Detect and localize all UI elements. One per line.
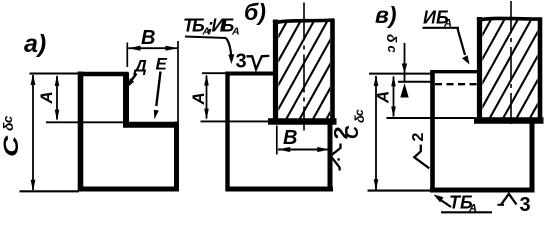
svg-text:δ: δ [384,34,400,43]
centerline of block (fig v) [510,1,512,124]
dimension B (fig a) [127,41,178,122]
extension line lower level (fig v) [398,81,432,83]
label TBa; IBa (fig b) [183,16,240,38]
dimension A (fig b) [204,74,209,120]
svg-text:б): б) [244,0,266,25]
extension line upper level (fig v) [369,73,431,75]
svg-text:в): в) [375,2,397,28]
underline of TBa;IBa with leader arrow (fig b) [185,37,234,65]
extension line top (fig a) [30,73,80,75]
svg-text:Е: Е [156,55,168,74]
extension line mid through part (fig b) [201,120,270,122]
surface mark 3 bottom (fig v) [498,194,531,216]
surface mark 2 with check, left side (fig v) [410,133,429,169]
centerline of block (fig b) [303,3,305,131]
svg-text:С: С [0,135,23,157]
svg-text:с: с [352,109,366,116]
extension line top-left (fig b) [202,72,226,74]
dimension A line (fig a) [55,75,60,121]
label IBa with underline and leader (fig v) [423,8,470,65]
svg-text:3: 3 [236,51,247,73]
hatching (fig b) [231,20,395,123]
workpiece outline (fig a) [78,72,179,192]
extension line mid through part (fig a) [46,121,124,123]
svg-text:а): а) [24,30,46,58]
svg-text:2: 2 [410,133,427,142]
label E with leader (fig a) [154,55,168,120]
extension line notch (fig v) [387,117,476,119]
dimension A (fig v) [391,75,396,118]
label TBa bottom with underline and leader (fig v) [434,193,493,215]
svg-text:В: В [141,27,155,49]
label C with delta c superscript (fig v) [342,109,367,139]
extension line bottom (fig v) [368,190,431,192]
label D with leader (fig a) [127,57,147,88]
dimension C line (fig a) [31,74,36,191]
extension line bottom (fig a) [20,190,80,192]
dimension C (fig v) [374,75,379,191]
svg-text:А: А [374,91,393,104]
svg-text:А: А [231,26,240,38]
fixture block with hatching (fig b) [273,20,335,123]
svg-text:Д: Д [133,57,147,76]
workpiece outline (fig b) [226,72,337,191]
svg-text:А: А [37,91,56,104]
svg-text:А: А [189,92,208,105]
svg-text:3: 3 [520,194,531,216]
workpiece outline (fig v) [430,70,544,192]
label C with delta c superscript (fig a) [0,115,23,157]
fixture block with hatching (fig v) [477,17,542,122]
small dimension delta c (fig v) [400,43,408,98]
surface mark 3 with check (fig b) [236,51,270,73]
dimension B (fig b) [277,126,330,155]
svg-text:с: с [385,46,400,54]
label delta c (fig v) [384,34,400,54]
hatching (fig v) [434,20,553,123]
svg-text:В: В [283,127,297,149]
svg-text:С: С [342,125,362,139]
surface mark 2 with check, right side (fig b) [331,126,352,170]
svg-text:с: с [0,115,15,123]
